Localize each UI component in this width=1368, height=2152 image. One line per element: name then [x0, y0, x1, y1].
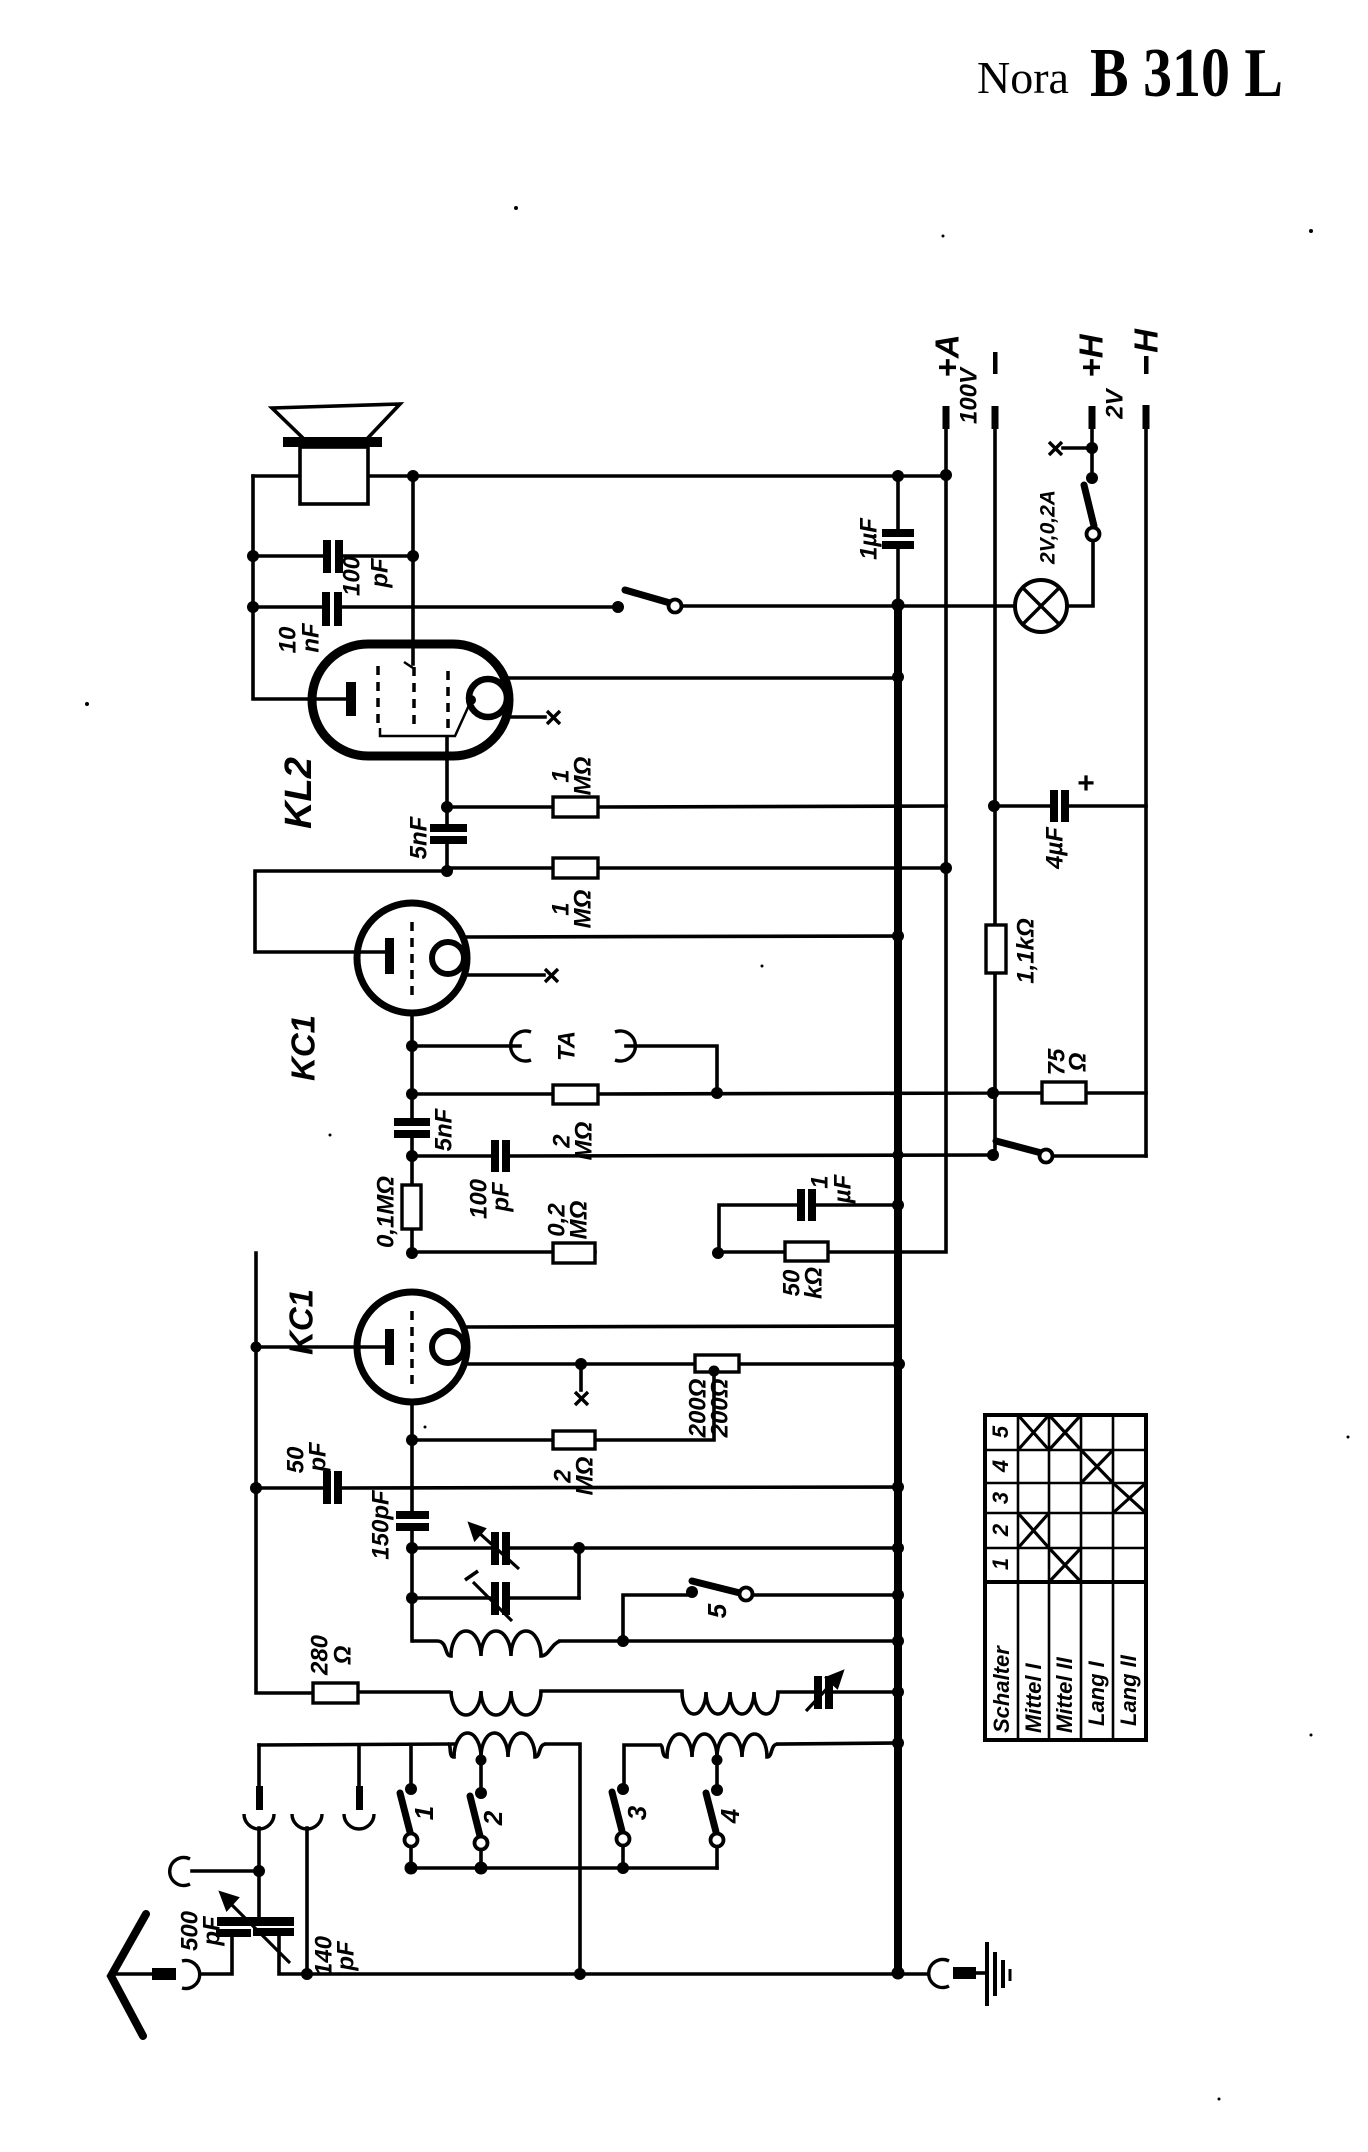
- svg-text:3: 3: [988, 1492, 1013, 1504]
- svg-text:4: 4: [715, 1808, 745, 1824]
- svg-text:µF: µF: [830, 1173, 857, 1204]
- svg-text:TA: TA: [554, 1031, 581, 1061]
- svg-text:kΩ: kΩ: [801, 1267, 828, 1299]
- svg-text:MΩ: MΩ: [570, 756, 597, 795]
- svg-text:Mittel II: Mittel II: [1052, 1656, 1077, 1733]
- svg-text:KC1: KC1: [283, 1289, 320, 1355]
- svg-text:1,1kΩ: 1,1kΩ: [1013, 918, 1040, 984]
- svg-text:+: +: [1077, 767, 1095, 800]
- svg-text:1µF: 1µF: [856, 517, 883, 560]
- svg-text:Ω: Ω: [330, 1645, 357, 1665]
- svg-text:Lang II: Lang II: [1116, 1654, 1141, 1726]
- svg-text:2: 2: [478, 1810, 508, 1826]
- svg-text:100: 100: [339, 555, 366, 596]
- svg-text:5: 5: [702, 1603, 732, 1618]
- svg-text:4: 4: [988, 1460, 1013, 1473]
- svg-text:1: 1: [409, 1806, 439, 1820]
- svg-text:nF: nF: [298, 622, 325, 653]
- svg-text:0,1MΩ: 0,1MΩ: [373, 1176, 400, 1248]
- svg-text:Ω: Ω: [1065, 1052, 1092, 1072]
- svg-text:Schalter: Schalter: [989, 1645, 1014, 1733]
- svg-text:5nF: 5nF: [431, 1107, 458, 1151]
- svg-text:pF: pF: [333, 1940, 360, 1972]
- svg-text:KL2: KL2: [278, 757, 320, 829]
- svg-text:3: 3: [622, 1805, 652, 1820]
- svg-text:KC1: KC1: [285, 1015, 322, 1081]
- svg-text:100V: 100V: [956, 366, 983, 424]
- svg-text:4µF: 4µF: [1042, 826, 1069, 870]
- svg-text:2V: 2V: [1102, 387, 1129, 419]
- svg-text:Mittel I: Mittel I: [1021, 1662, 1046, 1733]
- svg-text:+H: +H: [1073, 333, 1110, 377]
- svg-text:pF: pF: [367, 557, 394, 589]
- svg-text:pF: pF: [488, 1181, 515, 1213]
- svg-text:MΩ: MΩ: [571, 1121, 598, 1160]
- svg-text:200Ω: 200Ω: [707, 1378, 734, 1438]
- svg-text:5nF: 5nF: [406, 815, 433, 859]
- svg-text:H: H: [1128, 328, 1165, 353]
- svg-text:150pF: 150pF: [368, 1489, 395, 1560]
- svg-text:5: 5: [988, 1425, 1013, 1438]
- svg-text:MΩ: MΩ: [570, 889, 597, 928]
- svg-text:2V,0,2A: 2V,0,2A: [1037, 490, 1060, 565]
- svg-text:pF: pF: [305, 1441, 332, 1473]
- svg-text:MΩ: MΩ: [572, 1456, 599, 1495]
- svg-text:pF: pF: [199, 1915, 226, 1947]
- svg-text:1: 1: [988, 1558, 1013, 1570]
- svg-text:B 310 L: B 310 L: [1090, 35, 1283, 112]
- svg-text:Lang I: Lang I: [1084, 1660, 1109, 1726]
- svg-text:MΩ: MΩ: [566, 1200, 593, 1239]
- svg-text:2: 2: [988, 1523, 1013, 1537]
- svg-text:Nora: Nora: [977, 52, 1069, 103]
